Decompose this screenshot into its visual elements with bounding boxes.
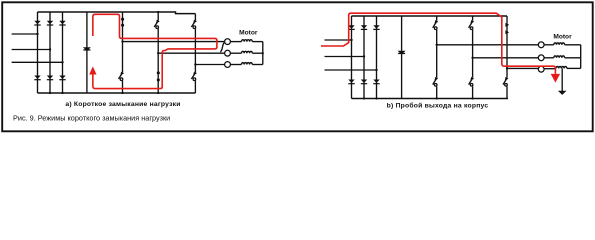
winding L3 (right motor) [544,66,581,68]
ground chassis symbol [558,91,567,95]
junction phase B / leg 2 [49,48,51,50]
terminal circle 3 (right motor) [538,66,544,72]
wire rectifier leg 1 (left) [37,12,39,93]
junction phase A / leg 1 [36,33,38,35]
node DC+ top bus (left) [38,12,196,14]
junction phase C / leg 3 (right) [375,69,377,71]
diode D5 bottom [47,76,53,81]
node DC+ top bus (right) [352,15,508,17]
diode D3 top (right) [373,25,379,30]
switch V6 open (right leg 2 bottom) [469,77,475,99]
switch V3 open (left leg 2 top) [154,20,160,93]
switch V2 open (right leg 3 bottom) [503,77,509,99]
junction leg3 / phase W (right) [506,67,508,69]
junction leg2 / phase V wire [157,52,159,54]
wire phase C input (left) [12,61,63,63]
wire motor phase W (right) [507,67,538,69]
wire inverter leg 2 (left) [157,12,159,20]
terminal circle 2 (left motor) [225,50,231,56]
diode VD crowbar (left DC link) [83,47,91,51]
wire DC link branch (right) [401,16,403,99]
diode D6 bottom [59,76,65,81]
wire winding fault to chassis (right) [561,68,563,91]
wire phase A input (right) [325,39,352,41]
wire motor phase U (right) [437,44,539,46]
junction leg2 / phase V (right) [471,57,473,59]
wire motor star return (left) [262,42,264,65]
winding L1 (left motor) [230,40,262,42]
switch V1 open (right leg 1 top) [433,20,439,77]
diode D4 bottom [34,76,40,81]
junction winding 2 / return (left) [262,52,264,54]
wire DC link branch (left) [86,12,88,93]
wire rectifier leg 3 (right) [376,16,378,99]
wire inverter leg 2 (right) [472,16,474,20]
wire motor phase V (left) [158,52,224,54]
diode D4 bottom (right) [348,80,354,85]
wire crossover near motor terminals (left) [220,43,224,52]
diode D1 top (right) [348,25,354,30]
svg-text:Рис. 9. Режимы короткого замык: Рис. 9. Режимы короткого замыкания нагру… [13,114,170,123]
diode D6 bottom (right) [373,80,379,85]
svg-text:Motor: Motor [553,34,572,41]
arrowhead fault current down (right, red) [551,74,560,83]
terminal circle 1 (right motor) [538,42,544,48]
switch V4 open (left leg 1 bottom) [119,72,125,93]
switch V6 closed contacts (left leg 2 bottom) [157,71,160,81]
svg-text:а) Короткое замыкание нагрузки: а) Короткое замыкание нагрузки [65,101,180,108]
winding L3 (left motor) [230,63,262,65]
diode VD crowbar (right DC link) [398,51,406,55]
junction leg1 / phase U (right) [436,44,438,46]
diode D1 top [34,21,40,26]
junction dots on bottom bus (left) [49,92,159,94]
switch V5 closed contacts (right leg 3 top) [505,23,509,34]
wire motor phase W (left) [195,64,224,66]
wire inverter leg 1 (left) [122,12,124,72]
wire motor star return (right) [580,45,582,69]
svg-text:Motor: Motor [239,30,258,37]
node DC- bottom bus (right) [352,98,509,100]
wire inverter leg 1 (right) [436,16,438,20]
switch V3 open (right leg 2 top) [469,20,475,77]
junction leg 2 / top bus [157,11,159,13]
wire motor phase U (left) [123,41,225,43]
winding L1 (right motor) [544,43,581,45]
terminal circle 1 (left motor) [225,39,231,45]
wire rectifier leg 3 (left) [62,12,64,93]
wire phase B input (right) [325,56,365,58]
terminal circle 2 (right motor) [538,55,544,61]
wire phase A input (left) [12,33,38,35]
diode D3 top [59,21,65,26]
diode D5 bottom (right) [361,80,367,85]
wire rectifier leg 2 (left) [49,12,51,93]
switch V4 open (right leg 1 bottom) [433,77,439,99]
junction phase A / leg 1 (right) [350,39,352,41]
junction phase C / leg 3 [61,61,63,63]
diode D2 top (right) [361,25,367,30]
switch V5 open (left leg 3 top) [191,20,197,72]
wire inverter leg 3 (right) [506,16,508,77]
switch V2 open (left leg 3 bottom) [191,72,197,93]
winding L2 (right motor) [544,56,581,58]
junction leg3 / phase W wire [194,63,196,65]
junction leg1 / phase U wire [121,41,123,43]
winding L2 (left motor) [230,51,262,53]
wire phase C input (right) [325,69,377,71]
wire inverter leg 3 (left) [194,14,196,20]
wire phase B input (left) [12,49,50,51]
terminal circle 3 (left motor) [225,62,231,68]
junction phase B / leg 2 (right) [363,55,365,57]
wire fault current loop (left, red) [93,14,217,88]
wire rectifier leg 1 (right) [351,16,353,99]
diode D2 top [47,21,53,26]
switch V1 closed contacts (left leg 1 top) [121,18,124,27]
node DC- bottom bus (left) [38,92,196,94]
wire fault current path (right, red) [321,13,555,74]
junction dots on bottom bus (right) [363,97,474,99]
arrowhead fault current up (left, red) [89,66,96,74]
wire rectifier leg 2 (right) [363,16,365,99]
svg-text:b) Пробой выхода на корпус: b) Пробой выхода на корпус [387,102,489,110]
wire motor phase V (right) [473,57,539,59]
figure frame [2,2,593,131]
